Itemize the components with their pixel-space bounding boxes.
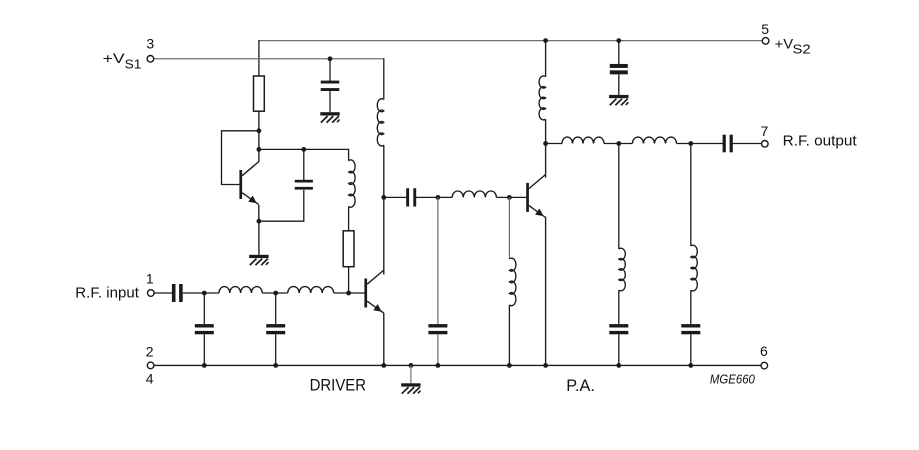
wire top rail drop to R1 — [258, 40, 260, 76]
inductor L7 — [562, 137, 604, 143]
label pin 5 — [761, 21, 769, 37]
wire L5 to Q3 base — [496, 196, 526, 198]
node V junction — [436, 363, 441, 368]
wire C11 top lead — [618, 41, 620, 65]
node A junction — [257, 128, 262, 133]
node J junction (coupling tap) — [381, 195, 386, 200]
label pin 7 — [761, 123, 769, 139]
wire node B to L1 — [259, 149, 349, 160]
wire L10 top lead — [690, 144, 692, 247]
inductor L5 — [452, 191, 496, 197]
ground G4 — [609, 95, 628, 105]
svg-text:+V: +V — [775, 36, 794, 52]
svg-text:R.F. output: R.F. output — [783, 133, 858, 150]
node H junction — [273, 291, 278, 296]
ground G2 — [320, 112, 339, 122]
ground G3 — [401, 383, 420, 393]
capacitor C5 — [266, 324, 285, 334]
capacitor C10 — [428, 324, 447, 334]
node S junction — [273, 363, 278, 368]
wire C2 bottom lead — [259, 190, 304, 222]
node G junction — [202, 291, 207, 296]
wire C10 bottom lead — [437, 334, 439, 365]
wire Q1 emitter — [258, 205, 260, 221]
svg-text:DRIVER: DRIVER — [310, 377, 367, 395]
wire L1 to R2 — [348, 206, 350, 230]
wire R1 to node A — [258, 111, 260, 162]
inductor L1 — [349, 160, 355, 207]
inductor L6 — [539, 76, 545, 120]
wire L11 bottom lead — [508, 305, 510, 366]
inductor L3 — [288, 287, 334, 293]
wire L11 top lead — [508, 197, 510, 259]
capacitor C4 — [195, 324, 214, 334]
label +VS2 — [775, 36, 811, 56]
wire ground stub — [410, 365, 412, 383]
wire L9 to C8 — [618, 290, 620, 324]
node O junction — [616, 141, 621, 146]
node E junction (VS1/C1) — [328, 56, 333, 61]
label P.A. — [566, 377, 595, 395]
wire L6 to top rail — [545, 41, 547, 77]
svg-text:S2: S2 — [793, 41, 811, 56]
inductor L10 — [691, 245, 697, 291]
wire L8 to C7 — [677, 143, 724, 145]
wire L2 to L3 — [262, 292, 288, 294]
transistor Q1 — [239, 162, 258, 205]
svg-text:3: 3 — [146, 36, 154, 52]
wire L10 to C9 — [690, 290, 692, 324]
wire VS1 rail drop — [383, 58, 385, 99]
svg-text:MGE660: MGE660 — [710, 372, 756, 387]
wire C1 top lead — [329, 59, 331, 81]
capacitor C8 — [609, 324, 628, 334]
wire Q2 emitter to rail — [383, 313, 385, 365]
inductor L9 — [619, 248, 625, 291]
label DRIVER — [310, 377, 367, 395]
capacitor C3 — [172, 284, 183, 302]
svg-text:R.F. input: R.F. input — [75, 285, 139, 302]
node pin 6 terminal — [761, 362, 768, 369]
capacitor C11 — [610, 64, 628, 74]
wire tap to C6 — [384, 196, 407, 198]
label +VS1 — [103, 51, 142, 71]
svg-text:+V: +V — [103, 51, 126, 67]
label R.F. input — [75, 285, 139, 302]
svg-text:4: 4 — [146, 370, 154, 386]
node I junction (Q2 base) — [346, 291, 351, 296]
svg-text:7: 7 — [761, 123, 769, 139]
node C junction (Q1 emitter) — [257, 219, 262, 224]
wire Q2 collector column — [383, 145, 385, 274]
node pin 3 terminal — [147, 56, 154, 63]
node pin 7 terminal — [762, 141, 769, 148]
wire C3 to L2 — [183, 292, 219, 294]
inductor L8 — [632, 137, 676, 143]
node X junction (Q3 emitter) — [543, 363, 548, 368]
capacitor C7 — [723, 135, 733, 153]
svg-text:6: 6 — [760, 343, 768, 359]
node M junction (top rail) — [543, 38, 548, 43]
node pin 2/4 terminal — [147, 362, 154, 369]
node W junction — [507, 363, 512, 368]
node pin 1 terminal — [148, 290, 155, 297]
inductor L11 — [509, 258, 515, 306]
node T junction (Q2 emitter) — [381, 363, 386, 368]
node L junction — [507, 195, 512, 200]
wire C4 top lead — [203, 293, 205, 324]
wire L9 top lead — [618, 144, 620, 249]
wire pin1 to C3 — [154, 292, 172, 294]
node Z junction — [688, 363, 693, 368]
label MGE660 — [710, 372, 756, 387]
wire C6 to L5 — [416, 196, 452, 198]
transistor Q3 (P.A.) — [526, 175, 545, 218]
wire C2 top lead — [303, 149, 305, 180]
node pin 5 terminal — [762, 38, 769, 45]
wire C5 bottom lead — [275, 334, 277, 365]
wire to ground G1 — [258, 221, 260, 255]
node R junction — [202, 363, 207, 368]
capacitor C2 — [295, 180, 313, 190]
wire C7 to pin 7 — [733, 143, 762, 145]
wire L7 to L8 — [604, 143, 632, 145]
capacitor C9 — [681, 324, 700, 334]
label pin 4 — [146, 370, 154, 386]
wire C5 top lead — [275, 293, 277, 324]
wire C9 bottom lead — [690, 334, 692, 365]
label R.F. output — [783, 133, 858, 150]
wire +VS2 top rail — [259, 40, 762, 42]
wire Q3 collector column — [545, 119, 547, 178]
svg-text:S1: S1 — [125, 57, 142, 72]
resistor R1 — [254, 76, 265, 111]
wire Q3 emitter to rail — [545, 217, 547, 366]
wire bottom rail (pins 2,4,6) — [154, 364, 761, 366]
node P junction — [688, 141, 693, 146]
node N junction (output row) — [543, 141, 548, 146]
wire C10 top lead — [437, 197, 439, 324]
svg-text:P.A.: P.A. — [566, 377, 595, 395]
svg-text:2: 2 — [146, 343, 154, 359]
node U junction (ground tap) — [409, 363, 414, 368]
wire +VS1 rail (pin 3) — [154, 58, 384, 60]
ground G1 — [249, 255, 268, 265]
wire N to L7 — [546, 143, 562, 145]
label pin 1 — [146, 271, 154, 287]
inductor L4 — [377, 99, 384, 146]
resistor R2 — [343, 231, 354, 267]
capacitor C1 — [321, 81, 340, 91]
node K junction — [436, 195, 441, 200]
transistor Q2 (driver) — [364, 270, 383, 313]
node B junction — [257, 147, 262, 152]
svg-text:1: 1 — [146, 271, 154, 287]
wire C1 bottom lead — [329, 91, 331, 112]
label pin 6 — [760, 343, 768, 359]
node F junction (top rail/C11) — [616, 38, 621, 43]
node D junction (C2 top) — [301, 147, 306, 152]
node Y junction — [616, 363, 621, 368]
wire C11 bottom lead — [618, 74, 620, 95]
wire C4 bottom lead — [203, 334, 205, 365]
label pin 3 — [146, 36, 154, 52]
inductor L2 — [219, 287, 262, 293]
wire R2 to driver base node — [348, 267, 350, 293]
wire L3 to Q2 base — [334, 292, 365, 294]
wire C8 bottom lead — [618, 334, 620, 365]
label pin 2 — [146, 343, 154, 359]
wire feedback to Q1 base — [222, 131, 259, 185]
svg-text:5: 5 — [761, 21, 769, 37]
capacitor C6 — [406, 188, 416, 206]
